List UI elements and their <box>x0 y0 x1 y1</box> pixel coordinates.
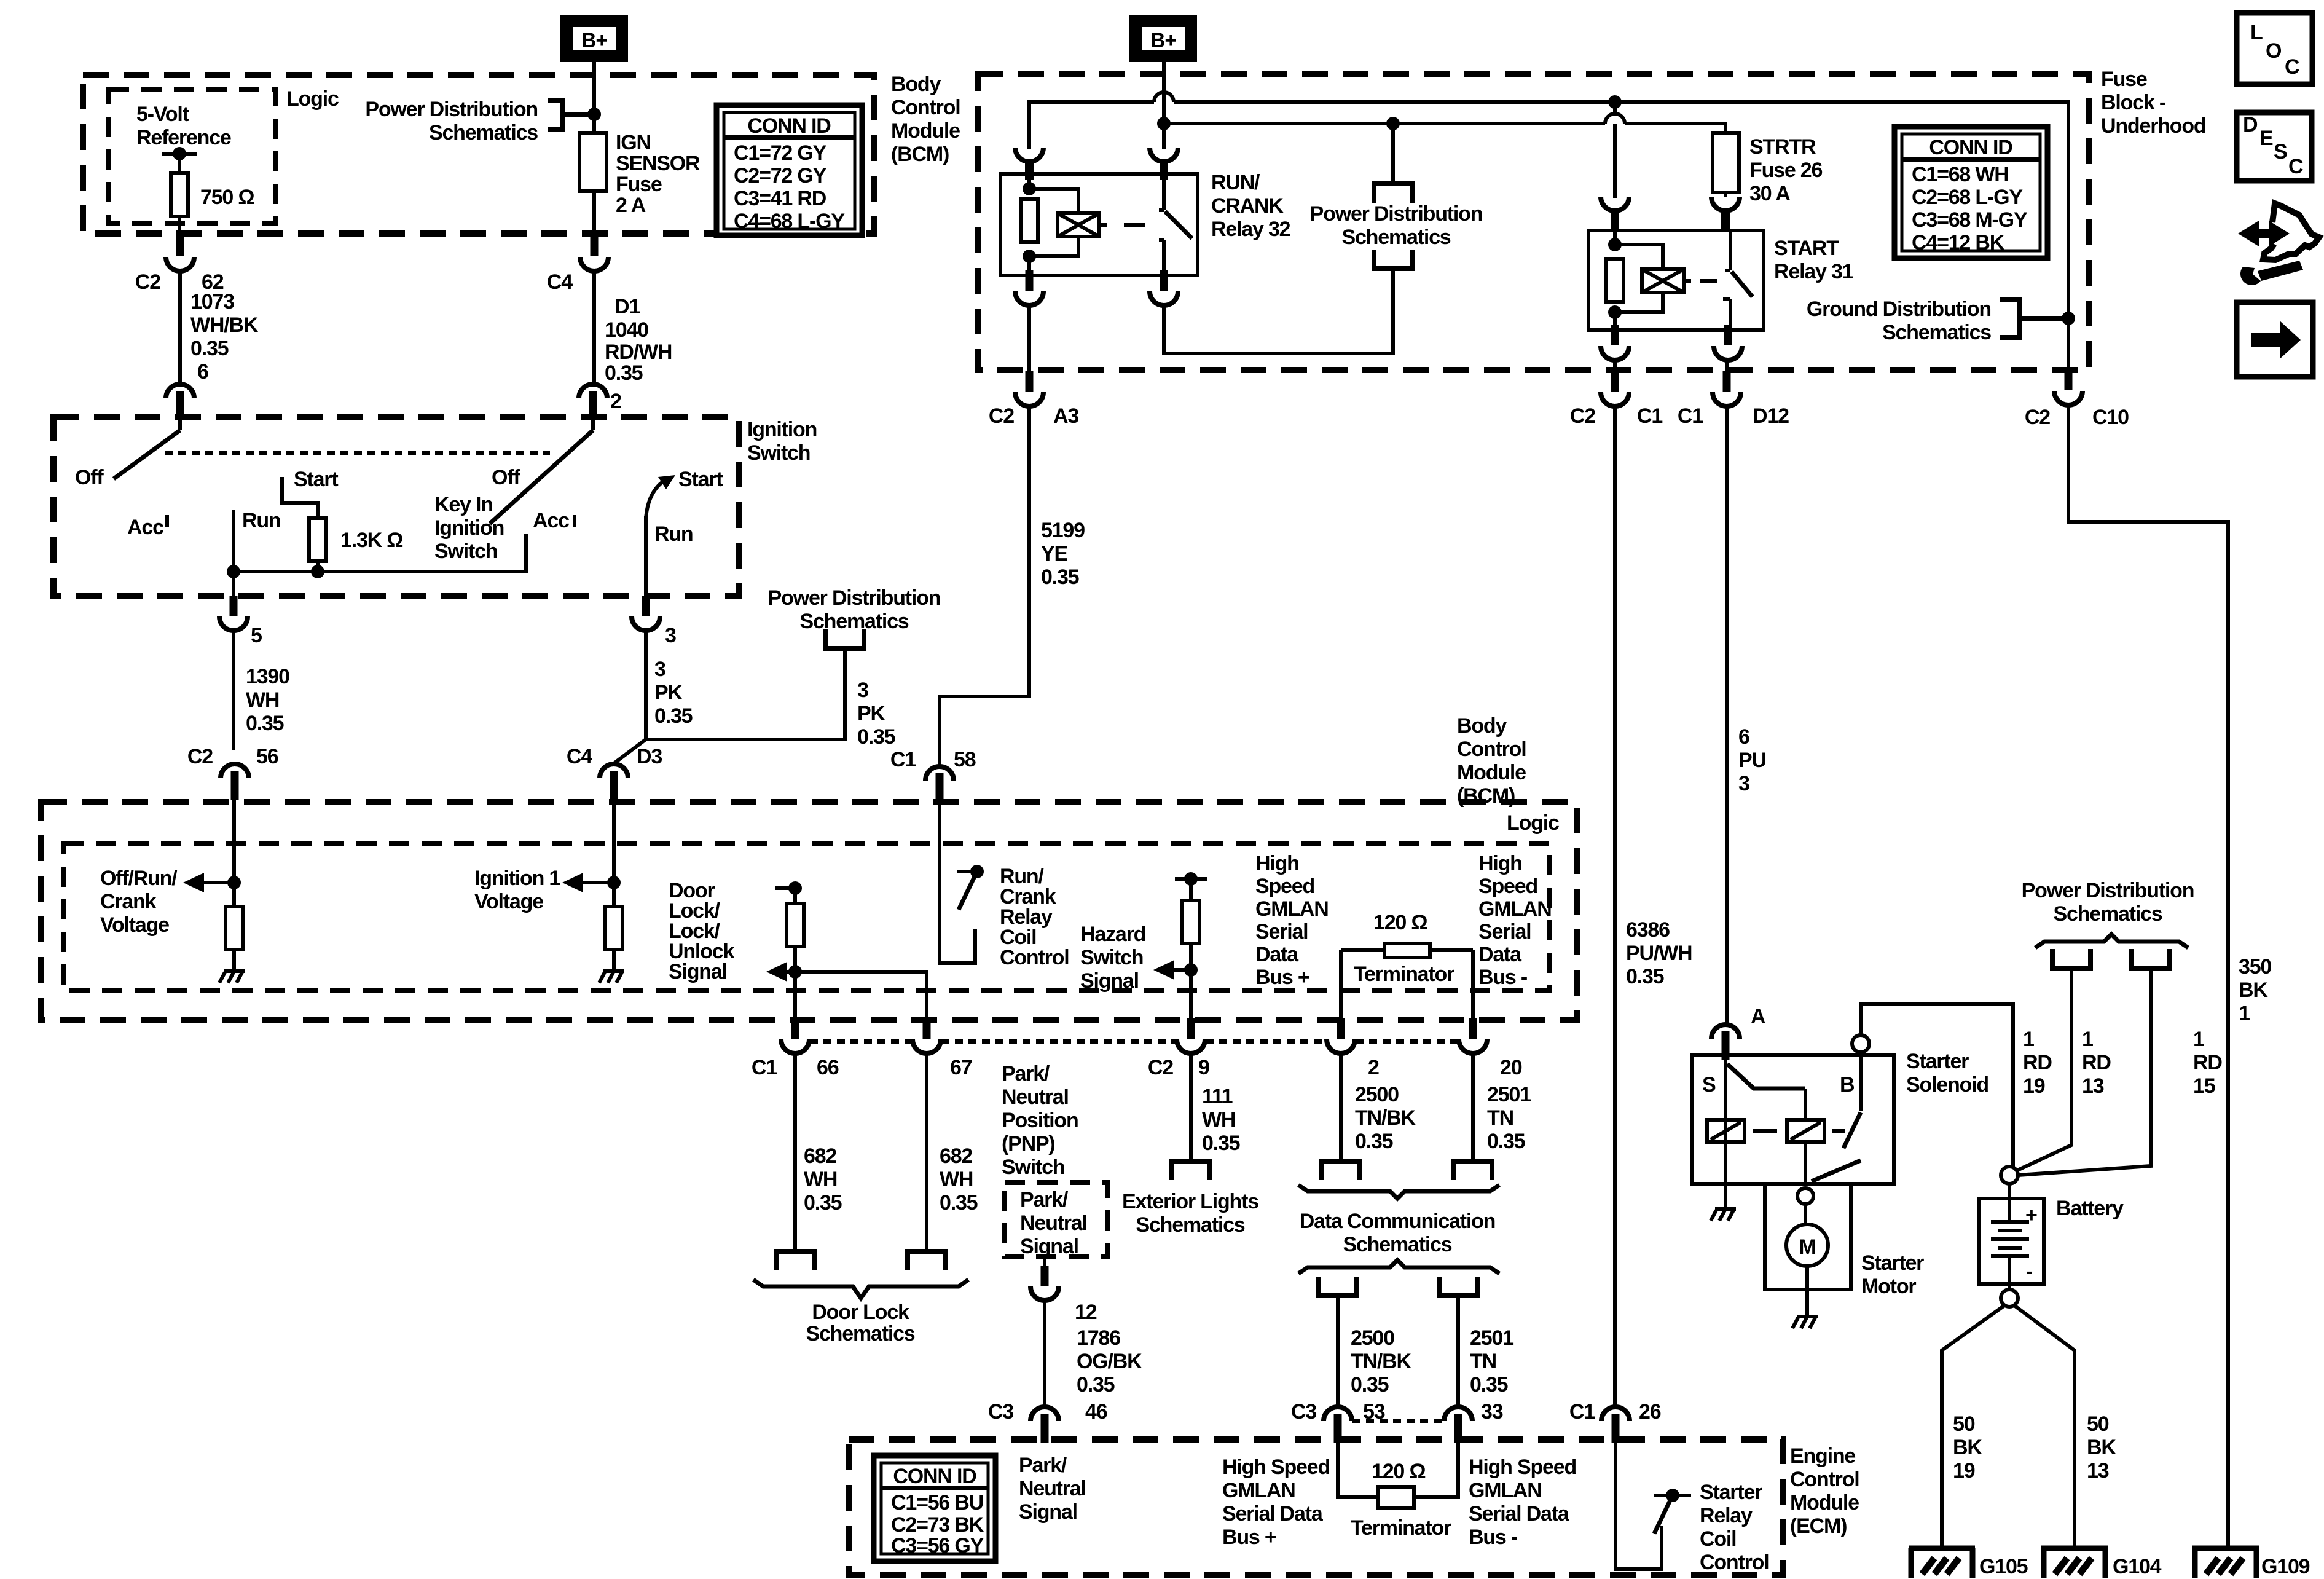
svg-text:46: 46 <box>1085 1400 1107 1423</box>
connector 12 <box>1043 1257 1046 1267</box>
svg-text:E: E <box>2259 127 2273 150</box>
svg-text:Signal: Signal <box>1020 1235 1078 1258</box>
Off/Run/Crank Voltage column <box>232 800 236 883</box>
node junction at 1675,417 <box>1023 250 1036 263</box>
wire 111 WH <box>1189 1053 1193 1161</box>
arrowhead <box>1153 960 1174 980</box>
switch blade <box>490 430 593 524</box>
svg-text:C4=68 L-GY: C4=68 L-GY <box>734 210 845 233</box>
svg-text:Park/: Park/ <box>1019 1454 1067 1477</box>
node junction at 517,930 <box>311 565 324 578</box>
connector 67 <box>913 1018 941 1053</box>
svg-text:Start: Start <box>294 468 338 491</box>
wire <box>1159 240 1164 275</box>
svg-text:350: 350 <box>2239 955 2271 979</box>
svg-text:Park/: Park/ <box>1002 1062 1050 1085</box>
svg-text:2501: 2501 <box>1487 1083 1531 1106</box>
wire hop: start relay coil wire over lower bus <box>1608 95 1622 109</box>
ignition switch internal wire <box>234 534 526 572</box>
start contact + 1.3K resistor <box>282 477 318 572</box>
svg-text:TN/BK: TN/BK <box>1355 1106 1416 1130</box>
page connector symbol <box>905 1251 948 1270</box>
svg-text:Terminator: Terminator <box>1354 963 1454 986</box>
svg-text:C2: C2 <box>1148 1056 1173 1079</box>
page connector symbol (flipped) <box>1372 250 1415 269</box>
wire 1040 RD/WH <box>592 270 596 382</box>
svg-text:120 Ω: 120 Ω <box>1372 1460 1425 1483</box>
node junction at 2628,508 <box>1608 305 1622 319</box>
wire from switch1 down <box>232 572 235 596</box>
svg-text:Control: Control <box>1000 946 1069 969</box>
svg-text:Off: Off <box>492 466 520 489</box>
svg-text:6: 6 <box>1738 725 1749 749</box>
page connector symbol <box>1437 1277 1480 1296</box>
wire <box>1341 950 1473 1020</box>
svg-text:C1: C1 <box>752 1056 777 1079</box>
svg-text:6386: 6386 <box>1626 918 1670 942</box>
terminal circle <box>1786 1224 1828 1266</box>
svg-text:Coil: Coil <box>1700 1527 1736 1551</box>
node junction at 292,250 <box>173 147 186 160</box>
resistor <box>226 907 243 950</box>
svg-text:3: 3 <box>665 624 676 647</box>
svg-text:Control: Control <box>891 96 960 119</box>
svg-text:IGN: IGN <box>616 131 651 154</box>
fuse block dashed box <box>978 74 2089 370</box>
solenoid coil 1 <box>1707 1120 1745 1142</box>
svg-text:1: 1 <box>2082 1028 2093 1051</box>
svg-text:WH: WH <box>246 688 279 712</box>
svg-text:5: 5 <box>251 624 262 647</box>
svg-text:A: A <box>1751 1005 1765 1028</box>
svg-text:BK: BK <box>1953 1436 1982 1459</box>
wire 350 BK 1 from C10 <box>2068 406 2228 1548</box>
battery brace <box>2035 934 2188 948</box>
svg-text:Schematics: Schematics <box>429 121 538 144</box>
svg-text:3: 3 <box>1738 772 1749 795</box>
CONN ID table 2 (fuse block) <box>1894 127 2047 258</box>
node junction at 1938,1578 <box>1184 963 1198 977</box>
svg-text:RD: RD <box>2023 1051 2052 1074</box>
svg-text:BK: BK <box>2087 1436 2116 1459</box>
wire 3 PK left <box>644 630 648 739</box>
switch blade <box>114 430 180 479</box>
svg-text:1.3K Ω: 1.3K Ω <box>340 529 402 552</box>
wire <box>2008 1184 2011 1222</box>
svg-text:Solenoid: Solenoid <box>1906 1073 1988 1097</box>
resistor <box>1182 900 1199 943</box>
CONN ID table 3 (ECM) <box>874 1455 995 1561</box>
node junction at 2267,201 <box>1386 117 1400 130</box>
wire <box>1168 968 1191 972</box>
svg-text:PK: PK <box>857 702 885 725</box>
svg-text:Schematics: Schematics <box>806 1322 915 1345</box>
upper bus wire <box>1029 102 2068 372</box>
svg-text:111: 111 <box>1202 1085 1233 1108</box>
power distribution bracket pair (fuse block) <box>1391 124 1395 184</box>
svg-text:0.35: 0.35 <box>1077 1373 1115 1396</box>
svg-text:33: 33 <box>1481 1400 1503 1423</box>
svg-text:Acc: Acc <box>533 509 569 532</box>
svg-text:Signal: Signal <box>1019 1500 1077 1524</box>
svg-text:Underhood: Underhood <box>2101 114 2206 138</box>
data comm brace lower <box>1298 1260 1499 1274</box>
battery page brackets <box>2050 949 2093 968</box>
svg-text:Run: Run <box>242 509 281 532</box>
Park/Neutral PNP chain <box>1005 1183 1107 1257</box>
wire 1390 WH <box>232 630 235 750</box>
svg-text:Module: Module <box>1457 761 1526 784</box>
svg-text:0.35: 0.35 <box>246 712 284 735</box>
svg-text:Module: Module <box>891 119 960 143</box>
start relay bottom socket connectors <box>1601 325 1629 360</box>
exterior lights page bracket <box>1169 1161 1212 1180</box>
svg-text:Power Distribution: Power Distribution <box>2022 879 2194 902</box>
wire <box>1338 1443 1458 1497</box>
fuse IGN SENSOR Fuse 2A <box>592 114 596 236</box>
ground G109 <box>2192 1548 2259 1578</box>
svg-text:CONN ID: CONN ID <box>747 114 831 138</box>
svg-text:20: 20 <box>1500 1056 1522 1079</box>
start curved arrow <box>646 478 670 519</box>
svg-text:Starter: Starter <box>1700 1481 1762 1504</box>
svg-text:C3=41 RD: C3=41 RD <box>734 187 826 210</box>
svg-text:C1=72 GY: C1=72 GY <box>734 141 827 165</box>
svg-text:WH/BK: WH/BK <box>190 313 259 337</box>
svg-text:6: 6 <box>197 360 208 384</box>
svg-text:12: 12 <box>1075 1301 1097 1324</box>
connector C2/9 <box>1177 1018 1205 1053</box>
lower bus wire <box>1164 124 1725 133</box>
svg-text:C1: C1 <box>1637 404 1662 428</box>
svg-text:D: D <box>2243 113 2258 136</box>
svg-text:0.35: 0.35 <box>1041 565 1079 589</box>
switch blade <box>1727 1064 1805 1089</box>
svg-text:Schematics: Schematics <box>2054 902 2162 926</box>
ground <box>1792 1317 1818 1328</box>
relay coil energize symbol <box>1642 269 1684 293</box>
svg-text:C2=72 GY: C2=72 GY <box>734 164 827 187</box>
BCM upper dashed box <box>83 75 874 234</box>
wire <box>1613 102 1617 114</box>
svg-text:(ECM): (ECM) <box>1790 1514 1847 1538</box>
svg-text:C1=68 WH: C1=68 WH <box>1912 163 2009 186</box>
wire <box>795 972 927 1020</box>
connector <box>1030 1266 1059 1301</box>
connector C1/66 <box>781 1018 809 1053</box>
battery negative split <box>1942 1305 2075 1548</box>
wire <box>1162 60 1166 124</box>
svg-text:Reference: Reference <box>136 126 231 149</box>
wire <box>957 870 977 873</box>
svg-text:0.35: 0.35 <box>605 361 643 385</box>
svg-text:C2=73 BK: C2=73 BK <box>891 1513 984 1537</box>
switch blade <box>1843 1112 1861 1148</box>
svg-text:Starter: Starter <box>1906 1050 1969 1073</box>
terminal circle <box>2001 1167 2018 1184</box>
svg-text:Exterior Lights: Exterior Lights <box>1122 1190 1258 1213</box>
wire 3 PK right <box>614 648 845 763</box>
wire 1 RD 13 <box>2016 968 2071 1171</box>
svg-text:Key In: Key In <box>434 493 493 516</box>
Door lock signal wires <box>775 886 795 890</box>
svg-text:Module: Module <box>1790 1491 1859 1514</box>
car / arrows / wrench icon <box>2238 203 2319 285</box>
relay socket connectors top (relay 32) <box>1015 148 1043 180</box>
svg-text:1: 1 <box>2023 1028 2034 1051</box>
connectors C2/C1 and C1/D12 <box>1601 371 1629 406</box>
svg-text:CONN ID: CONN ID <box>893 1465 976 1488</box>
DESC icon <box>2237 112 2312 181</box>
svg-text:0.35: 0.35 <box>1487 1130 1525 1153</box>
svg-text:Ignition: Ignition <box>434 516 504 540</box>
svg-text:0.35: 0.35 <box>654 704 693 728</box>
svg-text:Crank: Crank <box>100 890 157 913</box>
door lock page brackets <box>774 1251 817 1270</box>
svg-text:Start: Start <box>678 468 723 491</box>
svg-text:High Speed: High Speed <box>1222 1455 1330 1479</box>
connector C2/A3 <box>1015 371 1043 406</box>
svg-text:C1: C1 <box>1678 404 1703 428</box>
svg-text:Data: Data <box>1255 943 1299 966</box>
svg-text:C3=56 GY: C3=56 GY <box>891 1534 984 1557</box>
connector 5 <box>219 596 248 631</box>
svg-text:Voltage: Voltage <box>474 890 543 913</box>
switch blade <box>1165 211 1192 238</box>
svg-text:RD/WH: RD/WH <box>605 341 672 364</box>
arrowhead <box>766 962 787 982</box>
svg-text:Control: Control <box>1790 1468 1859 1491</box>
svg-text:L: L <box>2250 21 2263 44</box>
wire relay32 switch to bracket <box>1164 269 1393 353</box>
svg-text:Schematics: Schematics <box>1882 321 1991 344</box>
wire <box>165 515 169 527</box>
next-page arrow icon <box>2237 302 2313 377</box>
svg-text:15: 15 <box>2193 1074 2215 1098</box>
svg-text:Logic: Logic <box>1507 811 1559 835</box>
svg-text:682: 682 <box>940 1144 972 1168</box>
wire <box>573 515 576 527</box>
svg-text:Fuse: Fuse <box>2101 68 2147 91</box>
switch blade <box>1732 272 1753 297</box>
svg-text:C1: C1 <box>1569 1400 1595 1423</box>
mechanical linkage dotted line <box>165 451 550 455</box>
svg-text:0.35: 0.35 <box>1351 1373 1389 1396</box>
B terminal circle <box>1852 1035 1869 1052</box>
svg-text:S: S <box>1702 1073 1716 1097</box>
connector <box>1711 197 1740 229</box>
svg-text:5-Volt: 5-Volt <box>136 103 189 126</box>
svg-text:Serial: Serial <box>1478 920 1531 943</box>
terminal circle <box>1797 1188 1813 1204</box>
svg-text:BK: BK <box>2239 979 2268 1002</box>
svg-text:Switch: Switch <box>1002 1156 1064 1179</box>
svg-text:Park/: Park/ <box>1020 1188 1069 1211</box>
svg-text:Power Distribution: Power Distribution <box>1310 202 1483 226</box>
wire <box>1765 1184 1851 1290</box>
svg-text:WH: WH <box>1202 1108 1235 1132</box>
svg-text:OG/BK: OG/BK <box>1077 1350 1142 1373</box>
svg-text:C3: C3 <box>988 1400 1013 1423</box>
svg-text:2 A: 2 A <box>616 194 646 217</box>
node junction at 1675,307 <box>1023 182 1036 195</box>
svg-text:Acc: Acc <box>127 516 163 539</box>
svg-text:30 A: 30 A <box>1749 182 1790 205</box>
wire <box>1791 1122 1821 1140</box>
svg-text:58: 58 <box>954 748 976 771</box>
run contact wire 1 <box>232 510 235 572</box>
svg-text:0.35: 0.35 <box>857 725 895 749</box>
resistor <box>787 904 804 947</box>
wire <box>940 803 975 963</box>
svg-text:C1: C1 <box>890 748 916 771</box>
arrowhead <box>183 873 204 892</box>
svg-text:C4: C4 <box>567 745 592 768</box>
svg-text:PU: PU <box>1738 749 1766 772</box>
svg-text:5199: 5199 <box>1041 519 1085 542</box>
wire 1786 OG/BK <box>1043 1301 1046 1405</box>
wire <box>1615 245 1663 330</box>
wire <box>577 881 614 884</box>
wire <box>1804 1089 1807 1184</box>
wire <box>1723 299 1730 330</box>
750 ohm resistor <box>162 154 197 236</box>
svg-text:S: S <box>2274 140 2287 163</box>
svg-text:D1: D1 <box>614 295 640 318</box>
node junction at 2628,398 <box>1608 238 1622 251</box>
svg-text:M: M <box>1799 1235 1815 1259</box>
svg-text:750 Ω: 750 Ω <box>200 186 254 209</box>
svg-text:Switch: Switch <box>434 540 497 563</box>
svg-text:C: C <box>2288 155 2303 178</box>
svg-text:Power Distribution: Power Distribution <box>365 98 538 121</box>
wire <box>1724 1055 1727 1184</box>
connector 33 <box>1444 1407 1472 1443</box>
wire <box>1724 192 1727 197</box>
connector C2/62 <box>166 236 194 271</box>
connector 2 (GMLAN+) <box>1327 1018 1355 1053</box>
node junction at 380,930 <box>227 565 240 578</box>
solenoid contact switch <box>1859 1052 1863 1111</box>
svg-text:D3: D3 <box>637 745 662 768</box>
node: junction B+1 / bracket <box>587 108 601 121</box>
BCM bottom connector dotted line <box>810 1039 1458 1044</box>
svg-text:Bus -: Bus - <box>1478 966 1527 989</box>
svg-text:O: O <box>2266 39 2282 63</box>
svg-text:G109: G109 <box>2261 1555 2310 1578</box>
wire <box>1991 1222 2029 1256</box>
svg-text:26: 26 <box>1639 1400 1661 1423</box>
svg-text:Schematics: Schematics <box>800 610 909 633</box>
svg-text:13: 13 <box>2082 1074 2104 1098</box>
ground <box>1711 1209 1736 1221</box>
node junction at 1294,1445 <box>788 881 802 895</box>
svg-text:0.35: 0.35 <box>940 1191 978 1215</box>
switch 1 pole and blade <box>178 413 182 430</box>
svg-text:Schematics: Schematics <box>1343 1233 1452 1256</box>
svg-text:GMLAN: GMLAN <box>1255 897 1329 921</box>
svg-text:GMLAN: GMLAN <box>1222 1479 1295 1502</box>
svg-text:WH: WH <box>804 1168 837 1191</box>
ground G105 <box>1909 1548 1975 1578</box>
RUN/CRANK Relay 32 <box>1000 174 1198 275</box>
wire 2501 TN upper <box>1471 1053 1475 1161</box>
wire <box>1605 114 1625 124</box>
wire 1073 WH/BK <box>178 270 182 382</box>
ground <box>599 971 624 983</box>
wire <box>793 888 797 1020</box>
START Relay 31 <box>1588 230 1764 330</box>
svg-text:C1=56 BU: C1=56 BU <box>891 1491 983 1514</box>
svg-text:Serial Data: Serial Data <box>1222 1502 1324 1526</box>
svg-text:-: - <box>2026 1260 2032 1283</box>
svg-text:Block -: Block - <box>2101 91 2165 114</box>
connector <box>1015 270 1043 305</box>
node junction at 999,1436 <box>607 876 621 889</box>
svg-text:Body: Body <box>1457 714 1507 738</box>
svg-text:Speed: Speed <box>1478 875 1537 898</box>
svg-text:C3=68 M-GY: C3=68 M-GY <box>1912 208 2028 232</box>
STRTR Fuse 26 30A <box>1713 133 1739 192</box>
svg-text:G104: G104 <box>2113 1555 2162 1578</box>
ground <box>219 971 245 983</box>
svg-text:Starter: Starter <box>1861 1251 1924 1275</box>
starter motor <box>1765 1184 1851 1315</box>
wire relay31 switch to starter solenoid A <box>1725 406 1729 1025</box>
connector <box>1713 371 1741 406</box>
svg-text:SENSOR: SENSOR <box>616 152 700 175</box>
svg-text:C4: C4 <box>547 270 573 294</box>
svg-text:CRANK: CRANK <box>1211 194 1284 218</box>
connector <box>1150 270 1178 305</box>
wire 2500 TN/BK upper <box>1339 1053 1343 1161</box>
node junction at 3366,518 <box>2062 312 2075 325</box>
Starter Relay Coil Control switch (ECM) <box>1615 1443 1662 1569</box>
key-in switch pole and blade <box>591 413 595 430</box>
svg-text:Off: Off <box>75 466 104 489</box>
svg-text:C4=12 BK: C4=12 BK <box>1912 231 2005 254</box>
svg-text:C2: C2 <box>989 404 1014 428</box>
wire <box>612 883 616 970</box>
svg-text:C2=68 L-GY: C2=68 L-GY <box>1912 186 2023 209</box>
page connector symbol <box>823 629 866 648</box>
node junction at 1294,1581 <box>788 965 802 979</box>
start relay socket connectors top <box>1601 197 1629 229</box>
svg-text:2501: 2501 <box>1470 1326 1513 1350</box>
wire <box>1805 1266 1809 1315</box>
svg-text:0.35: 0.35 <box>1202 1132 1240 1155</box>
svg-text:0.35: 0.35 <box>1626 965 1664 988</box>
wire <box>1711 1122 1741 1140</box>
svg-text:120 Ω: 120 Ω <box>1373 911 1427 934</box>
svg-text:C2: C2 <box>135 270 160 294</box>
wire 2500 TN/BK lower <box>1336 1296 1340 1409</box>
svg-text:Switch: Switch <box>1080 946 1143 969</box>
svg-text:2: 2 <box>1368 1056 1379 1079</box>
connector C2/56 <box>221 764 249 800</box>
Run/Crank Relay Coil Control switch <box>940 406 1029 765</box>
wire <box>1189 879 1193 1020</box>
wire <box>781 970 795 974</box>
svg-text:Fuse 26: Fuse 26 <box>1749 159 1823 182</box>
svg-text:1073: 1073 <box>190 290 234 313</box>
wire <box>1615 360 1727 372</box>
svg-text:Relay 31: Relay 31 <box>1774 260 1853 283</box>
data comm brace upper <box>1298 1185 1499 1199</box>
svg-text:STRTR: STRTR <box>1749 135 1816 159</box>
svg-text:0.35: 0.35 <box>804 1191 842 1215</box>
wire B+1 down <box>592 60 596 114</box>
